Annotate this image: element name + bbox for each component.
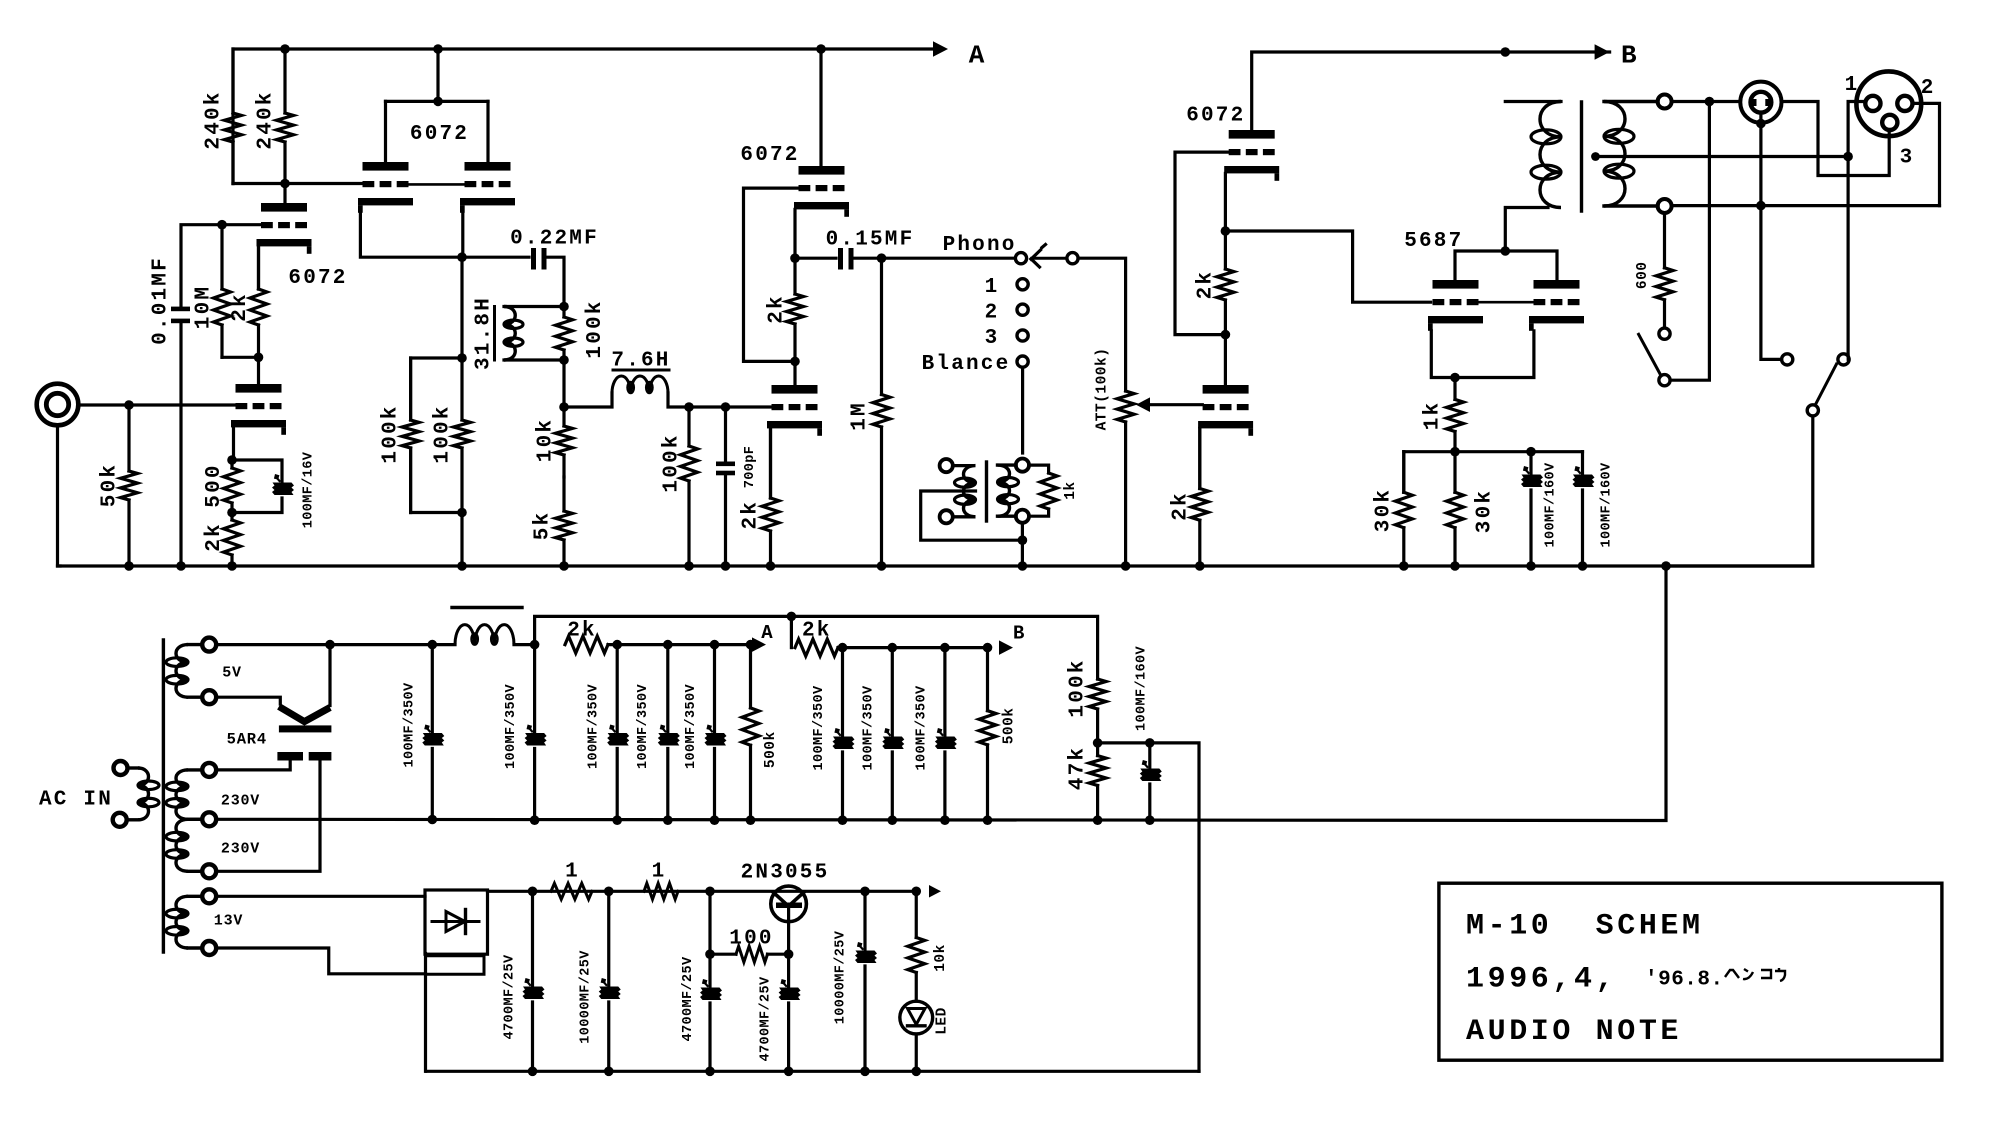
svg-text:500k: 500k — [763, 731, 779, 768]
node sec top riser — [1705, 97, 1715, 107]
label ATT(100k) — [1095, 348, 1111, 431]
wire V1b cathode to 500 — [232, 427, 234, 460]
xlr pin2 — [1897, 96, 1912, 111]
label pin2 — [1921, 77, 1936, 100]
label 2N3055 — [741, 862, 830, 885]
svg-text:2k: 2k — [229, 292, 252, 322]
label 2k rail A — [567, 620, 597, 643]
node rail A junction — [663, 640, 673, 650]
node rca center to sec bottom — [1756, 201, 1766, 211]
node V4 cathode out — [1221, 226, 1231, 236]
node 500 bottom — [227, 508, 237, 518]
node bus 30k R — [1450, 561, 1460, 571]
transformer PT core — [162, 640, 165, 952]
label 5k — [532, 511, 555, 541]
resistor 500k rail A — [742, 645, 759, 820]
label 100MF/350V c6 — [812, 685, 827, 771]
node bus 1M — [877, 561, 887, 571]
wire S2 right drop — [1848, 355, 1849, 359]
label 30k right — [1474, 489, 1497, 533]
bridge lower terminal step — [427, 956, 484, 975]
label 100k s2 right — [432, 404, 455, 463]
capacitor 0.22MF — [531, 248, 547, 270]
node branch-B drop — [787, 612, 797, 622]
label Blance — [922, 353, 1011, 376]
label 2 contact — [985, 301, 1000, 324]
wire heater minus rail — [426, 1070, 1199, 1073]
resistor 1k line sec — [1029, 465, 1057, 516]
label 100k s2 left — [380, 404, 403, 463]
svg-text:Phono: Phono — [943, 234, 1017, 257]
label 600 — [1635, 261, 1651, 289]
label 2k rail B — [802, 620, 832, 643]
wire wiper wire — [1033, 257, 1067, 260]
node heater minus junction — [604, 1067, 614, 1077]
node 10k top — [559, 402, 569, 412]
wire V4 out to 5687 grids — [1225, 231, 1430, 302]
node T2 ground join — [1018, 535, 1028, 545]
node V3b plate junction — [790, 357, 800, 367]
label 6072 V1 — [288, 267, 347, 290]
svg-text:M-10 SCHEM: M-10 SCHEM — [1466, 910, 1704, 944]
resistor 100k s2 right — [454, 358, 471, 513]
svg-text:'96.8.: '96.8. — [1645, 969, 1724, 992]
wire 0.15MF to phono switch — [854, 257, 1016, 260]
wire rca center to switch2 — [1761, 206, 1782, 360]
label 0.22MF — [510, 228, 599, 251]
tube V3b 6072 lower — [767, 385, 822, 436]
node divider mid — [1093, 738, 1103, 748]
terminal line sec bottom — [1016, 510, 1029, 523]
resistor 1M — [873, 258, 890, 566]
capacitor 4700MF/25V second — [779, 954, 801, 1071]
svg-text:100k: 100k — [661, 433, 684, 492]
resistor 1 ohm second — [644, 883, 678, 899]
resistor 100k V3 grid — [681, 407, 698, 566]
label 2k V3b — [740, 500, 763, 530]
node B- rail junction — [983, 815, 993, 825]
node heater rail n4 — [860, 887, 870, 897]
svg-text:1M: 1M — [849, 401, 872, 431]
tube V4b 6072 lower — [1198, 385, 1253, 436]
label 2k V1b — [203, 522, 226, 552]
capacitor 4700MF/25V input — [523, 891, 545, 1071]
node bus ATT — [1121, 561, 1131, 571]
wire V3a cathode down — [793, 209, 796, 258]
svg-text:10000MF/25V: 10000MF/25V — [834, 930, 849, 1024]
net label B — [1621, 40, 1637, 70]
label 6072 stage2 — [410, 123, 469, 146]
label 2k V4b — [1170, 491, 1193, 521]
label 6072 stage4 — [1186, 104, 1245, 127]
node heater minus junction — [705, 1067, 715, 1077]
resistor 10M — [214, 225, 231, 358]
node 100k pair bottom — [457, 508, 467, 518]
node bus PSU return — [1661, 561, 1671, 571]
wire V1a cathode to 2k — [257, 247, 260, 289]
svg-text:100k: 100k — [584, 299, 607, 358]
title M-10 SCHEM — [1466, 910, 1704, 944]
resistor 2k V4a cathode — [1217, 231, 1234, 335]
resistor 1k 5687 cathode — [1447, 378, 1464, 452]
svg-text:13V: 13V — [214, 912, 243, 929]
wire plate1 to 230V top — [216, 761, 290, 770]
wire bridge minus down — [424, 954, 427, 1072]
label 1 ohm second — [652, 861, 667, 884]
wire input jack ground drop — [58, 425, 61, 566]
svg-text:2k: 2k — [1170, 491, 1193, 521]
label 1k line — [1063, 481, 1079, 499]
label 240k right — [255, 90, 278, 149]
transformer T2 core — [985, 462, 988, 521]
title date katakana — [1725, 968, 1785, 981]
node bus 2k V4b — [1195, 561, 1205, 571]
svg-text:2: 2 — [1921, 77, 1936, 100]
svg-text:4700MF/25V: 4700MF/25V — [681, 956, 696, 1042]
node rail A junction — [710, 640, 720, 650]
node rail B junction — [888, 643, 898, 653]
svg-text:2: 2 — [985, 301, 1000, 324]
capacitor 4700MF/25V first — [700, 891, 722, 1071]
resistor 100k psu — [1089, 679, 1106, 743]
svg-text:3: 3 — [985, 327, 1000, 350]
svg-text:1: 1 — [565, 861, 580, 884]
label 100MF/350V c5 — [684, 683, 699, 769]
terminal OPT sec top — [1658, 95, 1672, 109]
svg-text:1k: 1k — [1063, 481, 1079, 499]
node bus T2 — [1018, 561, 1028, 571]
terminal line-in bottom — [940, 510, 953, 523]
node filament rail join — [325, 640, 335, 650]
transformer PT 230V winding 1 — [166, 770, 202, 819]
wire cathodes to 0.22MF — [462, 256, 529, 259]
node divider cap join — [1145, 738, 1155, 748]
switch contact 3 — [1017, 330, 1028, 341]
svg-text:240k: 240k — [255, 90, 278, 149]
resistor 2k V3b cathode — [762, 428, 779, 566]
node rail-A junction at 240k right — [280, 44, 290, 54]
transformer OPT core — [1580, 102, 1583, 211]
node B- rail junction — [1145, 815, 1155, 825]
svg-text:30k: 30k — [1474, 489, 1497, 533]
svg-text:6072: 6072 — [410, 123, 469, 146]
resistor 500k rail B — [979, 648, 996, 820]
label 100MF/350V c4 — [636, 683, 651, 769]
node B- c1 — [428, 815, 438, 825]
svg-text:4700MF/25V: 4700MF/25V — [502, 954, 517, 1040]
node rca center junction — [1756, 119, 1766, 129]
resistor 30k right — [1447, 452, 1464, 566]
tube V1b 6072 lower triode — [231, 384, 286, 435]
capacitor 100MF/350V c8 — [935, 648, 957, 820]
switch S2 contact right — [1838, 354, 1849, 365]
label 10M — [193, 285, 216, 329]
node B- rail junction — [530, 815, 540, 825]
wire 5687 grid link — [1477, 301, 1534, 304]
wire stage2 grid link — [407, 183, 466, 186]
node stage2 plate tee — [433, 97, 443, 107]
svg-text:100MF/350V: 100MF/350V — [812, 685, 827, 771]
svg-text:AC IN: AC IN — [39, 789, 113, 812]
switch S2 blade — [1816, 364, 1837, 405]
terminal 13V top — [202, 889, 216, 903]
inductor 31.8H — [495, 307, 565, 361]
svg-text:100MF/350V: 100MF/350V — [914, 685, 929, 771]
switch wiper terminal — [1067, 253, 1078, 264]
svg-text:2k: 2k — [740, 500, 763, 530]
wire V4a cathode down — [1224, 173, 1227, 231]
node 100k pair top — [457, 353, 467, 363]
svg-text:100MF/350V: 100MF/350V — [684, 683, 699, 769]
node rail B junction — [838, 643, 848, 653]
node bus 700pF — [721, 561, 731, 571]
label 30k left — [1373, 488, 1396, 532]
tube V2b 6072 — [460, 162, 515, 213]
net label A psu — [761, 622, 773, 644]
title date — [1466, 963, 1724, 997]
rectifier 5AR4 plates — [277, 752, 331, 761]
node 100k grid top — [684, 402, 694, 412]
wire T2 primary centertap — [921, 491, 1021, 540]
capacitor 100MF/350V c3 — [607, 645, 629, 820]
node bus 100k pair — [457, 561, 467, 571]
svg-text:0.01MF: 0.01MF — [150, 256, 173, 345]
label 100 — [729, 928, 773, 951]
tube V5b 5687 — [1529, 280, 1584, 331]
svg-text:A: A — [761, 622, 773, 644]
svg-text:LED: LED — [935, 1007, 951, 1035]
wire plate2 to 230V bottom — [216, 761, 320, 872]
label 500 — [203, 463, 226, 507]
capacitor 100MF/350V c2 — [525, 645, 547, 820]
svg-text:0.22MF: 0.22MF — [510, 228, 599, 251]
wire 13V bottom to bridge — [216, 948, 425, 974]
wire rail to V3a plate — [819, 49, 822, 166]
svg-text:B: B — [1013, 623, 1024, 645]
node B- rail junction — [746, 815, 756, 825]
svg-text:B: B — [1621, 40, 1637, 70]
wire to V4b plate — [1224, 335, 1227, 385]
svg-text:5V: 5V — [222, 664, 242, 681]
transformer OPT primary — [1505, 102, 1561, 208]
net label A — [969, 40, 985, 70]
node B- rail junction — [940, 815, 950, 825]
node 100 left node — [705, 949, 715, 959]
capacitor 100MF/350V c6 — [833, 648, 855, 820]
capacitor 10000MF/25V first — [599, 891, 621, 1071]
node B- rail junction — [663, 815, 673, 825]
node heater rail n3 — [705, 887, 715, 897]
svg-text:2k: 2k — [567, 620, 597, 643]
transformer PT 230V winding 2 — [166, 819, 202, 871]
svg-text:500k: 500k — [1002, 707, 1018, 744]
wire filament right up — [328, 645, 331, 706]
wire cathode bias rail — [1404, 452, 1583, 493]
resistor 2k V1a cathode — [250, 247, 267, 357]
svg-text:A: A — [969, 40, 985, 70]
switch contact Blance — [1017, 356, 1028, 367]
svg-text:1: 1 — [652, 861, 667, 884]
label 50k — [99, 463, 122, 507]
terminal 230V center — [202, 812, 216, 826]
node choke out — [530, 640, 540, 650]
label 2k V1a — [229, 292, 252, 322]
label 500k rail A — [763, 731, 779, 768]
node rectifier output — [428, 640, 438, 650]
label 700pF — [743, 446, 758, 489]
resistor 10k LED — [908, 891, 925, 1001]
wire 10M bottom jog — [222, 356, 259, 359]
wire 100k pair to bus — [460, 513, 463, 567]
capacitor 100MF/350V c4 — [658, 645, 680, 820]
label 230V lower — [221, 840, 260, 857]
capacitor 100MF/160V left — [1521, 452, 1543, 566]
capacitor 100MF/160V right — [1573, 466, 1595, 566]
label 2k V3a — [766, 294, 789, 324]
svg-text:100: 100 — [729, 928, 773, 951]
bridge rectifier box — [425, 890, 488, 954]
wire divider to cap and LED return — [1098, 743, 1199, 1071]
svg-text:5AR4: 5AR4 — [227, 731, 267, 749]
label 100MF/160V left — [1544, 462, 1559, 548]
svg-text:100MF/160V: 100MF/160V — [1134, 645, 1149, 731]
node B- rail junction — [1093, 815, 1103, 825]
capacitor 100MF/350V c5 — [705, 645, 727, 820]
svg-text:5k: 5k — [532, 511, 555, 541]
resistor 100k s2 left — [402, 358, 419, 513]
label 100MF/350V c8 — [914, 685, 929, 771]
wire 240k bottoms to V1a plate / stage2 grids — [233, 184, 363, 204]
wire stage2 plate tee — [386, 49, 489, 162]
label 10000MF/25V first — [579, 950, 594, 1044]
node bus 100k grid — [684, 561, 694, 571]
ac plug bottom — [113, 813, 127, 827]
label 31.8H — [473, 296, 496, 370]
label 1 contact — [985, 276, 1000, 299]
svg-text:6072: 6072 — [740, 144, 799, 167]
svg-text:31.8H: 31.8H — [473, 296, 496, 370]
node 1M top — [877, 253, 887, 263]
wire V2b cathode down — [461, 213, 464, 258]
capacitor 100MF/350V c1 — [422, 645, 444, 820]
wire sec bottom rail — [1672, 204, 1940, 207]
ac plug top — [114, 761, 128, 775]
svg-text:50k: 50k — [99, 463, 122, 507]
transformer OPT secondary — [1604, 102, 1658, 207]
wire wiper to ATT — [1078, 258, 1126, 391]
switch S2 contact left — [1782, 354, 1793, 365]
label 1M — [849, 401, 872, 431]
node 31.8H bottom — [559, 355, 569, 365]
svg-text:100MF/350V: 100MF/350V — [587, 683, 602, 769]
label 240k left — [203, 90, 226, 149]
wire V5a cathode down — [1431, 331, 1455, 378]
transformer PT 5V winding — [166, 645, 202, 698]
label 3 contact — [985, 327, 1000, 350]
resistor 500 — [224, 460, 241, 513]
label 5687 — [1404, 230, 1463, 253]
label 0.15MF — [826, 229, 915, 252]
wire branch-B takeoff — [535, 616, 1098, 679]
node 31.8H top — [559, 302, 569, 312]
label 0.01MF — [150, 256, 173, 345]
label 10k LED — [933, 944, 949, 972]
label Phono — [943, 234, 1017, 257]
svg-text:100MF/350V: 100MF/350V — [504, 683, 519, 769]
node bus 5k — [559, 561, 569, 571]
xlr connector body — [1856, 71, 1921, 136]
svg-text:600: 600 — [1635, 261, 1651, 289]
node rail A junction — [746, 640, 756, 650]
label 1k 5687 — [1421, 401, 1444, 431]
terminal 5V bottom — [202, 690, 216, 704]
svg-text:10000MF/25V: 10000MF/25V — [579, 950, 594, 1044]
node heater rail n5 — [911, 887, 921, 897]
wire ground bus — [58, 564, 1813, 567]
xlr pin1 — [1865, 96, 1880, 111]
svg-text:230V: 230V — [221, 840, 260, 857]
label 7.6H — [611, 350, 670, 373]
svg-text:100MF/350V: 100MF/350V — [402, 682, 417, 768]
switch contact Phono — [1015, 253, 1026, 264]
node heater minus junction — [860, 1067, 870, 1077]
wire B rail left segment — [1252, 44, 1610, 130]
svg-text:AUDIO NOTE: AUDIO NOTE — [1466, 1015, 1682, 1049]
wire 5687 plate tee — [1455, 251, 1557, 280]
label 4700MF/25V input — [502, 954, 517, 1040]
capacitor 100MF/16V bypass — [232, 460, 294, 513]
svg-text:6072: 6072 — [288, 267, 347, 290]
resistor 2k V4b cathode — [1191, 428, 1208, 566]
wire V3 out to 0.15MF — [795, 257, 836, 260]
transformer T2 secondary — [998, 465, 1019, 516]
svg-text:0.15MF: 0.15MF — [826, 229, 915, 252]
resistor 1 ohm first — [551, 883, 592, 899]
wire sec top to rca out — [1709, 100, 1738, 103]
node heater rail n2 — [604, 887, 614, 897]
wire 10k node to 7.6H — [564, 393, 612, 407]
label 100MF/350V c7 — [862, 685, 877, 771]
svg-text:1996,4,: 1996,4, — [1466, 963, 1617, 997]
switch S1 contact bottom — [1659, 375, 1670, 386]
capacitor 100MF/350V c7 — [882, 648, 904, 820]
svg-text:2k: 2k — [766, 294, 789, 324]
svg-text:230V: 230V — [221, 792, 260, 809]
node 5687 cathodes join — [1450, 373, 1460, 383]
rca output jack — [1740, 82, 1781, 123]
label 1 ohm first — [565, 861, 580, 884]
node V4b plate junction — [1221, 330, 1231, 340]
svg-text:ATT(100k): ATT(100k) — [1095, 348, 1111, 431]
switch contact 2 — [1017, 304, 1028, 315]
resistor 47k — [1089, 743, 1106, 821]
wire V1a grid to 10M and 0.01MF — [181, 225, 262, 566]
wire 5V top to rail — [216, 643, 432, 646]
wire heater plus rail — [488, 885, 942, 897]
wire stage2 100k pair top jog — [411, 257, 462, 420]
transformer PT primary — [127, 768, 159, 820]
node V1b plate junction — [254, 353, 264, 363]
terminal line sec top — [1016, 459, 1029, 472]
wire 7.6H out to V3b grid — [726, 405, 773, 408]
wire to V3b plate — [793, 361, 796, 385]
svg-text:100MF/160V: 100MF/160V — [1599, 462, 1614, 548]
inductor PSU choke — [432, 608, 534, 645]
wire V4a grid return — [1175, 152, 1229, 335]
wire to V1b plate — [257, 357, 260, 384]
wire rca out to pin3 route — [1782, 102, 1890, 176]
svg-text:10k: 10k — [535, 418, 558, 462]
